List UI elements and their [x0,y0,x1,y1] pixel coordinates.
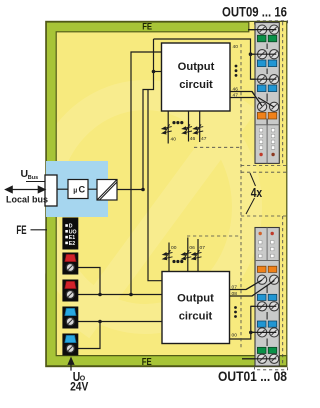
svg-text:Bus: Bus [28,175,38,181]
wire: FE lead to rail [31,229,48,231]
svg-text:Output: Output [178,61,215,73]
wire: bus vertical V1 (24V to upper output circuit) [131,52,162,295]
svg-text:FE: FE [16,225,26,237]
strip unit 4 screws (orange, outputs 46/47) [258,102,267,111]
junction dot at (100,321.5) [98,320,102,324]
strip upper LED window [259,125,274,164]
microcontroller U3 [68,180,88,199]
svg-text:00: 00 [232,333,238,339]
galvanic isolator [97,180,117,201]
svg-text:46: 46 [233,87,239,93]
wire: red 24V rail into lower output circuit [74,294,162,296]
svg-text:Output: Output [177,292,214,304]
local bus double arrow [6,186,46,192]
wire: lower LED stub 06 [187,238,189,272]
svg-text:FE: FE [142,22,152,33]
svg-text:E2: E2 [69,241,75,247]
wire: pin 47 to strip unit4 right screw [231,98,275,108]
wire: bus connector to microcontroller [57,188,68,190]
strip unit 3 screws (blue) [258,75,267,84]
bus connector [45,175,57,206]
ellipsis dots between lower LEDs [172,260,183,263]
junction dot at (143,189.5) [141,188,145,192]
junction dot at (250.8,336) [249,331,253,335]
power terminal 2 (red, 24V) [62,280,78,302]
terminal strip OUT09-16 (upper) [255,23,279,164]
vertical ellipsis right of upper box [235,65,238,77]
svg-text:circuit: circuit [179,310,213,322]
ellipsis dots between upper LEDs [172,121,183,124]
LED 07 (lower) [192,250,202,260]
junction dot at (250.5,54.2) [249,52,253,56]
strip unit green FE (lower) [257,347,266,353]
svg-text:40: 40 [171,136,177,142]
strip unit blue 1 (lower) [257,294,266,300]
terminal strip OUT01-08 (lower) [255,228,279,367]
dashed channel boundary (upper) [194,146,241,148]
wire: branch through strip unit2 screws [251,53,277,55]
wire: branch into upper output circuit at y71.5 [154,71,162,73]
LED 47 (upper) [194,124,204,134]
svg-text:circuit: circuit [179,79,213,91]
wire: upper LED stub 47 [199,111,201,143]
LED 06 (lower) [182,250,192,260]
local bus interface (blue block) [46,161,108,217]
wire: bus vertical V3 to lower output circuit [148,90,162,281]
wire: pin 07 to lower strip orange left screw [230,280,263,290]
wire: microcontroller to isolator [88,188,97,190]
wire: terminal 4 branch [74,322,100,349]
junction dot at (153.5,71.5) [152,70,156,74]
wire: microcontroller net V2 with jog [143,39,154,190]
output circuit U2 (lower) [162,272,230,344]
LED 40 (upper) [162,124,172,134]
wire: lower LED stub 07 [197,239,199,272]
4x annotation leader [250,173,256,186]
svg-text:47: 47 [233,93,239,99]
svg-text:Local bus: Local bus [6,195,48,205]
strip unit 09/10 screws (FE, green) [258,25,267,34]
junction dot at (131,294.5) [129,293,133,297]
svg-text:08: 08 [232,291,238,297]
power terminal 3 (blue, 0V) [62,307,78,329]
svg-text:00: 00 [171,245,177,251]
svg-text:07: 07 [232,285,238,291]
microcontroller wire to bus verticals [117,189,143,191]
label U O 24V with supply arrow [68,358,73,371]
svg-text:4x: 4x [251,185,263,200]
status LED block [62,218,78,250]
wire: blue 0V rail into lower output circuit [74,321,162,323]
strip lower LED window [259,228,275,261]
wire: lower LED stub 00 [168,243,170,272]
wire: pin 46 to strip unit4 left screw [231,92,263,107]
svg-text:OUT09 ... 16: OUT09 ... 16 [222,4,287,19]
svg-text:40: 40 [233,44,239,50]
wire: upper LED stub 40 [167,111,169,144]
dashed bottom bracket [255,366,288,370]
LED 46 (upper) [182,124,192,134]
dashed group outline: right vertical (lower) [282,216,284,366]
output circuit U1 (upper) [162,43,231,111]
wires over strip screws (overlay) [242,30,276,359]
power terminal 1 (red, 24V) [62,253,78,275]
wire: net 00 to lower strip blue units [230,306,277,339]
svg-text:24V: 24V [70,379,89,393]
svg-text:06: 06 [189,245,195,251]
dashed group outline: top bracket [255,21,288,25]
strip unit 01/02 (orange, outputs 07/08) [257,266,266,272]
svg-text:47: 47 [201,136,207,142]
wire: U Bus lead [26,181,45,183]
strip unit blue 2 (lower) [257,321,266,327]
wire: FE to lower strip green unit [242,358,276,360]
wire: branch through lower blue unit at y336 [251,331,276,333]
dashed group outline: right vertical (upper) [282,22,284,166]
dashed upper group bottom [241,165,287,167]
power terminal 4 (blue, 0V) [62,334,78,356]
LED 00 (lower) [163,250,173,260]
svg-text:46: 46 [190,136,196,142]
svg-text:OUT01 ... 08: OUT01 ... 08 [218,369,287,384]
module body (yellow) [46,21,287,366]
wire: pin 08 to lower strip orange right screw [230,281,275,297]
vertical ellipsis right of lower box [234,306,237,318]
dashed lower group top lines [241,171,287,173]
dashed group outline: left vertical [240,44,242,350]
wire: upper LED stub 46 [188,111,190,142]
wire: FE to strip unit1 (top) [248,29,276,31]
dashed channel boundary (lower) [187,235,241,237]
strip unit 2 screws (blue) [258,50,267,59]
wire: terminal 1 branch [74,268,100,295]
wire: net 40 to terminal strip [154,39,277,79]
svg-text:FE: FE [142,357,152,368]
svg-text:07: 07 [200,245,206,251]
junction dot at (100,294.5) [98,293,102,297]
FE rail (green frame: top, left, bottom) [46,22,286,366]
